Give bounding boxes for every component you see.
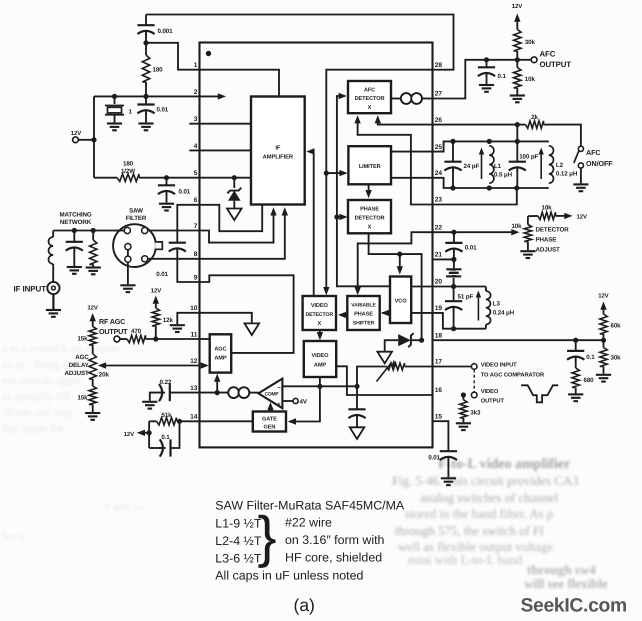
junction tank top L1 [450, 139, 455, 144]
resistor 10k (AFC) [514, 60, 536, 95]
wire pin 27 to AFC output node [433, 60, 518, 99]
svg-text:12V: 12V [577, 214, 587, 221]
svg-text:COMP: COMP [265, 392, 280, 398]
svg-text:0.1: 0.1 [498, 73, 507, 80]
capacitor 0.01 at pin 2 [137, 96, 168, 122]
svg-text:100 pF: 100 pF [519, 154, 538, 161]
arrow VCO to VPS [381, 310, 390, 316]
svg-text:6: 6 [194, 197, 198, 204]
svg-text:L2: L2 [556, 162, 564, 169]
junction limiter tap [324, 171, 329, 176]
capacitor + open ground (video amp out) [348, 386, 365, 439]
svg-text:PHASE: PHASE [360, 207, 379, 213]
resistor 60k [600, 314, 621, 340]
svg-text:PHASE: PHASE [354, 312, 373, 318]
svg-text:AFC: AFC [586, 148, 600, 157]
wire pin 4 stub [189, 149, 251, 151]
arrow 12V up (12k) [153, 296, 159, 309]
svg-text:L2-4 ½T: L2-4 ½T [215, 534, 262, 548]
resistor 10k to 12V [528, 205, 587, 221]
wire pin 20 external [433, 286, 486, 288]
capacitor 51 pF [445, 287, 473, 329]
svg-text:50 too and sing: 50 too and sing [2, 407, 73, 419]
arrow into PHASE DETECTOR [337, 214, 348, 220]
wire pin 1 external [146, 43, 200, 70]
wire pin 1 internal to IF amplifier [200, 70, 280, 97]
ground below 680 [568, 394, 583, 401]
wire transformer to COMP [249, 392, 258, 394]
svg-text:24 pF: 24 pF [464, 163, 480, 170]
svg-text:470: 470 [131, 328, 142, 335]
svg-text:it and so: it and so [104, 501, 143, 513]
wire pin 22 external arrow [433, 229, 520, 235]
svg-text:#22 wire: #22 wire [285, 516, 332, 530]
svg-text:26: 26 [435, 117, 443, 124]
svg-text:1: 1 [194, 62, 198, 69]
svg-text:19: 19 [435, 305, 443, 312]
junction zener node [232, 175, 237, 180]
junction C0.01 node [143, 94, 148, 99]
note L1 [215, 517, 262, 531]
svg-text:VIDEO: VIDEO [312, 353, 330, 359]
wire matching network rail [53, 230, 113, 232]
svg-text:25: 25 [435, 144, 443, 151]
inductor matching coil [49, 231, 54, 282]
resistor 15k upper [77, 327, 96, 354]
junction pin18 rail [419, 338, 424, 343]
SAW pin top-right [142, 227, 148, 233]
block VIDEO DETECTOR [303, 296, 336, 330]
arrow into AGC amp bottom [214, 374, 220, 393]
capacitor 24 pF [444, 141, 479, 188]
ground below C0.01 pin2 [138, 124, 153, 131]
arrow 12V left [124, 430, 149, 439]
svg-text:4: 4 [194, 143, 198, 150]
note brace [258, 505, 277, 569]
wire COMP output [282, 385, 357, 387]
svg-text:+: + [277, 402, 281, 408]
svg-text:VIDEO: VIDEO [481, 388, 499, 395]
svg-text:TO AGC COMPARATOR: TO AGC COMPARATOR [481, 371, 545, 378]
zener diode (pin 18, horizontal) [385, 333, 422, 352]
wire AFC det left input rail [337, 93, 390, 286]
junction L3 top [451, 284, 456, 289]
junction matching cap [72, 228, 77, 233]
wire VCO pin 19 [411, 312, 432, 314]
svg-text:12V: 12V [124, 431, 134, 438]
SAW pin mid-left [125, 244, 131, 250]
arrow LIMITER to PHASE DET [365, 184, 371, 198]
svg-text:on 3.16″ form with: on 3.16″ form with [285, 533, 385, 547]
svg-text:0.01: 0.01 [428, 455, 440, 462]
wire pin 24 step to tank bottom [433, 178, 549, 188]
note caps [215, 569, 363, 583]
svg-text:SeekIC.com: SeekIC.com [521, 596, 627, 617]
resistor 180 1/2W [94, 161, 200, 182]
svg-text:DETECTOR: DETECTOR [536, 227, 570, 234]
svg-text:0.1: 0.1 [586, 354, 595, 361]
svg-text:L1-9 ½T: L1-9 ½T [215, 517, 262, 531]
resistor matching [90, 231, 97, 267]
arrow VIDEO DET to VIDEO AMP [317, 330, 323, 340]
resistor 51k [149, 412, 199, 425]
ground below AFC 0.1 [479, 85, 494, 92]
note (a) [294, 595, 315, 615]
svg-text:12k: 12k [163, 317, 174, 324]
svg-text:0.1: 0.1 [161, 434, 170, 441]
arrow 12V up (60k) [600, 302, 606, 315]
junction pin21 [451, 257, 456, 262]
arrow into LIMITER [326, 170, 347, 176]
svg-text:12V: 12V [512, 3, 522, 10]
wire pin 22 internal to VPS [355, 232, 433, 295]
svg-text:(a): (a) [294, 595, 315, 615]
ground below crystal [107, 124, 122, 131]
svg-text:IF: IF [275, 146, 281, 152]
wire pin 7 from SAW [148, 230, 200, 232]
svg-text:28: 28 [435, 62, 443, 69]
wire AFC det to transformer [391, 98, 401, 100]
svg-text:her L.: her L. [2, 531, 30, 543]
ground below 15k chain [85, 413, 100, 420]
svg-text:this battle for: this battle for [2, 423, 63, 435]
svg-text:FILTER: FILTER [126, 215, 147, 222]
junction AFC 0.1 cap [484, 57, 489, 62]
svg-text:AFC: AFC [540, 50, 556, 59]
wire pin 26 external [433, 124, 518, 126]
wire wiper pin12 with arrow to AGC amp [105, 362, 209, 368]
terminal AFC OUTPUT [517, 50, 571, 70]
ground pin 10 [170, 325, 185, 332]
wire VIDEO AMP out to pin 16 [336, 366, 432, 395]
svg-text:VCO: VCO [395, 299, 408, 305]
svg-text:10: 10 [190, 305, 198, 312]
svg-text:12: 12 [190, 358, 198, 365]
wire LIMITER pin 24 [391, 177, 433, 179]
svg-text:60k: 60k [611, 323, 622, 330]
ground below matching cap [67, 267, 82, 274]
label 12V above 15k [87, 304, 97, 311]
note L2 [215, 534, 262, 548]
svg-text:10k: 10k [525, 76, 536, 83]
resistor 3k3 [460, 395, 481, 422]
wire PHASE DET to VCO / pin 18 rail [369, 233, 422, 340]
svg-text:18: 18 [435, 332, 443, 339]
svg-text:VIDEO INPUT: VIDEO INPUT [481, 362, 517, 369]
svg-text:will see flexible: will see flexible [524, 576, 608, 591]
wire pin 5 internal to IF amplifier [200, 177, 252, 179]
label 12V (30k) [512, 3, 522, 10]
junction pin18 0.1 cap [573, 338, 578, 343]
block VARIABLE PHASE SHIFTER [347, 296, 379, 330]
svg-text:through 575, the switch of Fl: through 575, the switch of Fl [395, 524, 544, 538]
junction AFC output node [515, 57, 520, 62]
junction 12V rail [91, 137, 96, 142]
ground above pin20 (inverted) [446, 270, 461, 287]
wire video amp out to GATE GEN [288, 386, 320, 424]
svg-text:1/2W: 1/2W [121, 168, 135, 175]
wire pin 9 to AGC amp output [200, 275, 294, 353]
note L3 [215, 552, 262, 566]
svg-text:0.01: 0.01 [465, 245, 477, 252]
resistor 470 [120, 328, 200, 343]
wire 12V to bias rail [78, 139, 94, 141]
svg-text:well as flexible output voltag: well as flexible output voltage [398, 540, 553, 554]
svg-text:27: 27 [435, 91, 443, 98]
svg-text:10k: 10k [541, 205, 552, 212]
svg-text:180: 180 [123, 161, 134, 168]
wire pin 8 arrow to IF amp [200, 207, 289, 258]
svg-text:180: 180 [153, 67, 164, 74]
wire pin 14 internal to GATE GEN [200, 420, 253, 422]
wiper arrow into 20k [98, 362, 106, 368]
svg-text:12V: 12V [71, 130, 81, 137]
svg-text:VARIABLE: VARIABLE [351, 303, 376, 309]
terminal VIDEO INPUT [433, 362, 545, 379]
IC pin-1 indicator dot [206, 51, 211, 56]
wire SAW internal mid column [127, 250, 129, 256]
SAW pin bot-right [142, 256, 148, 262]
wire pin 19 step to L3 bottom [433, 313, 486, 329]
svg-text:0.01: 0.01 [156, 271, 168, 278]
svg-text:analog switches of channel: analog switches of channel [420, 491, 559, 505]
SAW filter label [126, 208, 147, 223]
junction pot-17 drop [354, 384, 359, 389]
capacitor 0.01 pin 15 [428, 421, 457, 477]
IC pin numbers 1-28 [190, 62, 442, 421]
svg-text:0.01: 0.01 [157, 107, 169, 114]
capacitor 0.1 (pin 18) [567, 340, 595, 368]
svg-text:X: X [368, 105, 372, 111]
capacitor 0.1 AFC [478, 60, 507, 84]
svg-text:SAW: SAW [129, 208, 143, 215]
wire pin 11 internal to AGC amp [200, 338, 210, 340]
svg-text:All caps in uF unless noted: All caps in uF unless noted [215, 569, 363, 583]
capacitor 0.01 SAW rail + rail pins 6-9 [156, 205, 199, 282]
svg-text:OUTPUT: OUTPUT [99, 327, 128, 336]
ground below SAW [120, 285, 135, 292]
svg-text:20: 20 [435, 279, 443, 286]
note SAW filter [215, 499, 405, 513]
label 12V (60k) [598, 293, 608, 300]
note form [285, 533, 385, 547]
svg-text:RF AGC: RF AGC [99, 317, 125, 326]
svg-text:AMPLIFIER: AMPLIFIER [263, 155, 294, 161]
svg-text:23: 23 [435, 197, 443, 204]
block VIDEO AMP [304, 341, 336, 377]
svg-text:0.5 μH: 0.5 μH [494, 172, 513, 179]
inductor L2 [539, 146, 578, 183]
inductor L3 [476, 287, 515, 329]
ground below 0.22 [142, 402, 157, 409]
junction 3k3 [461, 392, 466, 397]
potentiometer pin 17 [357, 360, 433, 387]
junction phase det tap [334, 214, 339, 219]
svg-text:PHASE: PHASE [536, 237, 557, 244]
junction 12k bottom [153, 336, 158, 341]
svg-text:NETWORK: NETWORK [60, 219, 92, 226]
svg-text:24: 24 [435, 170, 443, 177]
resistor 12k [152, 308, 173, 339]
svg-text:−: − [277, 385, 281, 391]
arrow 12V up (30k) [514, 14, 520, 30]
arrow VPS to VIDEO DET [338, 312, 347, 318]
label 12V above 12k [151, 288, 161, 295]
wire pin 2 external [94, 95, 200, 97]
svg-text:2k: 2k [531, 114, 538, 121]
capacitor 0.01 at pin 5 [158, 178, 191, 203]
ground below pin15 cap [441, 478, 456, 485]
svg-text:14: 14 [190, 414, 198, 421]
wire pin 18 external [433, 339, 604, 341]
svg-text:mini with L-to-L band: mini with L-to-L band [408, 553, 523, 567]
svg-text:0.01: 0.01 [179, 189, 191, 196]
junction 51k right [177, 419, 182, 424]
transformer T2 (comp input) [228, 387, 249, 398]
svg-text:680: 680 [584, 377, 595, 384]
ground below det phase pot [520, 251, 535, 258]
svg-text:a m-i-costed L-to-l canno: a m-i-costed L-to-l canno [2, 343, 119, 355]
svg-text:15k: 15k [77, 395, 88, 402]
capacitor 100 pF [509, 154, 539, 189]
svg-text:9: 9 [194, 274, 198, 281]
svg-text:3: 3 [194, 116, 198, 123]
transformer T1 (AFC det out) [401, 93, 422, 104]
resistor 680 [572, 368, 594, 393]
ground below 0.01 pin21 [446, 269, 461, 276]
svg-text:AGC: AGC [75, 354, 89, 361]
svg-text:X: X [317, 321, 321, 327]
wire LIMITER pin 25 [391, 151, 433, 153]
wire pin 8 from SAW [148, 258, 200, 260]
waveform symbol (video) [521, 385, 558, 402]
wire VIDEO AMP bottom stub [319, 377, 321, 386]
ground below IF input [46, 310, 61, 317]
svg-text:0.12 μH: 0.12 μH [556, 171, 578, 178]
svg-text:12V: 12V [151, 288, 161, 295]
svg-text:4V: 4V [300, 399, 308, 406]
label matching network [59, 212, 91, 227]
wire pin 26 internal arrow to AFC det [375, 115, 433, 124]
junction L3 bottom [451, 326, 456, 331]
svg-text:ADJUST: ADJUST [536, 247, 560, 254]
svg-text:F-to-L video amplifier: F-to-L video amplifier [438, 457, 570, 472]
junction crystal node [112, 94, 117, 99]
capacitor matching [66, 231, 83, 267]
label DETECTOR PHASE ADJUST [536, 227, 570, 254]
svg-text:30k: 30k [611, 355, 622, 362]
svg-text:GEN: GEN [263, 424, 275, 430]
wire pin13 to transformer [200, 392, 229, 394]
wire SAW TL pin stub [113, 230, 124, 232]
svg-text:12V: 12V [598, 293, 608, 300]
watermark SeekIC.com [521, 596, 627, 617]
svg-text:AMP: AMP [314, 363, 326, 369]
svg-text:OUTPUT: OUTPUT [540, 60, 572, 69]
svg-text:3k3: 3k3 [470, 410, 481, 417]
svg-text:ADJUST: ADJUST [65, 370, 89, 377]
block GATE GEN [253, 412, 286, 432]
capacitor 0.22 on pin 13 [150, 379, 200, 401]
dashed link video in/out [473, 369, 475, 392]
junction gate-gen drop [317, 384, 322, 389]
svg-text:OUTPUT: OUTPUT [481, 398, 505, 405]
svg-text:L1: L1 [494, 163, 502, 170]
junction VCO top [397, 252, 402, 257]
arrow into VCO top [397, 254, 403, 274]
ground below 30k [596, 375, 611, 382]
wire pin 10 external [177, 313, 199, 324]
svg-text:L3: L3 [493, 301, 501, 308]
svg-text:as annually till: as annually till [2, 391, 70, 403]
svg-text:20k: 20k [99, 372, 110, 379]
note wire [285, 516, 332, 530]
svg-text:51 pF: 51 pF [458, 294, 474, 301]
wire pin 3 stub [189, 123, 251, 125]
wire pin 25 step to tank top [433, 141, 549, 151]
wire pin 28 internal rail [323, 70, 432, 296]
svg-text:10k: 10k [511, 223, 522, 230]
block AGC AMP [210, 334, 232, 372]
svg-text:DETECTOR: DETECTOR [355, 96, 385, 102]
svg-text:12V: 12V [87, 304, 97, 311]
terminal 4V [282, 398, 307, 405]
svg-text:DETECTOR: DETECTOR [355, 216, 385, 222]
svg-text:2: 2 [194, 89, 198, 96]
arrow GATE GEN to COMP [267, 402, 273, 412]
svg-text:LIMITER: LIMITER [359, 164, 381, 170]
wire transformer to pin 27 [422, 98, 433, 100]
svg-text:AGC: AGC [214, 347, 226, 353]
svg-text:51k: 51k [161, 412, 172, 419]
svg-text:30k: 30k [525, 39, 536, 46]
svg-text:SAW Filter-MuRata SAF45MC/MA: SAW Filter-MuRata SAF45MC/MA [215, 499, 405, 513]
junction tank bot pin23 [514, 185, 519, 190]
note core [285, 551, 382, 565]
capacitor 0.01 pins 21-22 [445, 232, 477, 268]
junction tank top L2 [515, 139, 520, 144]
node junction below C0.001 [143, 40, 148, 45]
block VCO [390, 277, 411, 324]
arrow 12V up (15k chain) [90, 313, 96, 327]
terminal RF AGC output [114, 336, 120, 342]
block PHASE DETECTOR [348, 200, 391, 233]
SAW pin top-left [124, 227, 130, 233]
svg-text:15: 15 [435, 413, 443, 420]
junction tank top L1R [487, 139, 492, 144]
svg-text:16: 16 [435, 387, 443, 394]
zener diode D1 [227, 178, 241, 209]
wire 100pF tank left rail [516, 125, 518, 162]
svg-text:ON/OFF: ON/OFF [586, 159, 613, 168]
svg-text:DETECTOR: DETECTOR [305, 312, 333, 318]
potentiometer 20k AGC delay [65, 354, 110, 379]
svg-text:13: 13 [190, 385, 198, 392]
resistor 15k lower [77, 379, 96, 412]
svg-text:15k: 15k [77, 336, 88, 343]
wire loop left [148, 421, 150, 448]
wire bias rail vertical [93, 96, 95, 177]
capacitor 0.1 (51k loop) [149, 421, 179, 456]
junction 12V tap [147, 430, 152, 435]
svg-text:0.24 μH: 0.24 μH [493, 310, 515, 317]
block AFC DETECTOR [348, 81, 391, 113]
junction tank bot L1 [450, 185, 455, 190]
open-arrow ground below pin18 diode [377, 352, 392, 364]
wire pin 7 staircase arrow to IF amp [200, 207, 277, 242]
wire SAW ground stem [127, 262, 129, 284]
svg-text:}: } [258, 505, 277, 569]
